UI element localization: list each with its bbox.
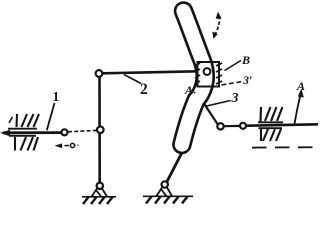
wire: output rod segment between joints [224, 125, 240, 127]
short link from arc to output rod [204, 104, 218, 125]
svg-text:B: B [241, 53, 250, 67]
slider block B on arc [195, 62, 222, 87]
svg-text:3′: 3′ [242, 73, 252, 87]
dashed trace line bottom right [252, 146, 315, 148]
slider guide left (fixed) [8, 114, 39, 151]
svg-text:2: 2 [140, 81, 148, 98]
motion indicator arrow under rod 1 [55, 143, 79, 148]
slider guide right (fixed) [258, 107, 283, 141]
leader for label 3' [222, 82, 243, 86]
svg-text:1: 1 [53, 89, 60, 104]
leader for label 1 [47, 103, 55, 130]
revolute joint on output rod (left) [217, 123, 223, 129]
wire: horizontal arm of link 2 [103, 71, 198, 73]
revolute joint at top corner of link 2 [96, 70, 103, 77]
svg-text:A: A [184, 83, 193, 97]
ground pivot of arc link [162, 181, 168, 187]
svg-text:A: A [296, 79, 305, 93]
curved slotted link 3 (arc slot) [182, 11, 205, 145]
leader for label 2 [124, 75, 141, 84]
arrowhead of link 1 motion (left tip) [0, 130, 10, 137]
svg-text:3: 3 [231, 91, 239, 106]
wire: sketchy link rod1 to link2 joint [68, 130, 97, 131]
revolute joint on output rod (right) [240, 123, 246, 129]
bottom link of arc to ground pivot [167, 153, 183, 183]
link 2 vertical bar [98, 77, 101, 183]
revolute joint link1-link2 [97, 127, 104, 134]
wire: output rod to right edge [246, 124, 318, 125]
ground symbol left [82, 189, 116, 205]
ground symbol right [143, 188, 193, 204]
leader for label B [225, 61, 242, 71]
ground pivot of link 2 [97, 183, 103, 189]
input rod link 1 [3, 131, 61, 134]
revolute joint on rod 1 [62, 129, 68, 135]
leader for label 3 [207, 101, 231, 107]
output motion arrow A [295, 89, 304, 124]
motion indicator arc at top of link 3 [212, 12, 221, 39]
pin joint A on block [204, 68, 211, 75]
